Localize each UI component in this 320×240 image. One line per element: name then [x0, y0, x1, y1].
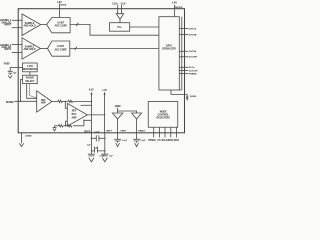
svg-text:10-BIT: 10-BIT	[57, 46, 65, 48]
svg-text:CS: CS	[157, 140, 161, 142]
svg-text:CONTROL: CONTROL	[158, 114, 170, 116]
svg-text:DCO+: DCO+	[189, 67, 196, 69]
svg-text:10-BIT: 10-BIT	[57, 22, 65, 24]
svg-text:0.1µF: 0.1µF	[94, 131, 100, 133]
svg-text:AVDD: AVDD	[60, 3, 66, 6]
svg-text:DRVDD: DRVDD	[175, 7, 183, 9]
svg-text:INPUT: INPUT	[4, 49, 11, 51]
svg-text:SENSE: SENSE	[6, 102, 14, 104]
svg-text:AND HOLD: AND HOLD	[23, 48, 35, 51]
svg-text:0.1µF: 0.1µF	[122, 140, 128, 142]
svg-text:VREF: VREF	[4, 64, 11, 66]
svg-text:OUT1A: OUT1A	[189, 28, 197, 31]
svg-text:0.5V: 0.5V	[89, 89, 94, 91]
svg-text:DATA: DATA	[166, 45, 172, 48]
svg-text:PDWN: PDWN	[148, 140, 155, 142]
svg-text:ADC CORE: ADC CORE	[54, 48, 67, 51]
svg-text:AGND: AGND	[25, 134, 32, 137]
svg-text:VREF: VREF	[120, 131, 126, 133]
svg-text:SDO: SDO	[174, 140, 179, 142]
svg-text:0.1µF: 0.1µF	[99, 155, 105, 157]
svg-text:OUT2A: OUT2A	[189, 50, 197, 53]
svg-text:VREF: VREF	[115, 106, 122, 108]
svg-text:REF: REF	[72, 110, 77, 112]
svg-text:DGND: DGND	[190, 96, 197, 98]
svg-text:INPUT: INPUT	[4, 25, 11, 27]
svg-text:DOUTA−: DOUTA−	[189, 33, 198, 36]
svg-text:SELECT: SELECT	[25, 81, 35, 83]
svg-text:SERIALIZER: SERIALIZER	[162, 48, 176, 51]
svg-text:1.0V: 1.0V	[102, 90, 107, 92]
svg-text:REFERENCE: REFERENCE	[23, 69, 38, 71]
svg-text:CLK+: CLK+	[112, 3, 119, 5]
svg-text:ADC CORE: ADC CORE	[55, 25, 68, 28]
svg-text:REFT: REFT	[106, 131, 112, 133]
svg-text:CLK−: CLK−	[121, 3, 128, 5]
svg-text:AMP: AMP	[71, 117, 77, 120]
svg-text:REGISTERS: REGISTERS	[157, 117, 171, 119]
svg-text:1.8V: 1.8V	[172, 3, 177, 5]
svg-text:RANGE: RANGE	[26, 77, 35, 80]
svg-text:FRAME: FRAME	[189, 72, 197, 75]
svg-text:MODE: MODE	[160, 111, 167, 113]
svg-text:CLKOUT: CLKOUT	[189, 70, 199, 72]
svg-text:DOUTB−: DOUTB−	[189, 57, 199, 59]
svg-text:1.25V: 1.25V	[27, 66, 33, 68]
svg-text:0.1µF: 0.1µF	[140, 140, 146, 142]
svg-text:PLL: PLL	[117, 27, 122, 29]
svg-text:AMP: AMP	[41, 101, 47, 104]
svg-text:RBIAS: RBIAS	[138, 130, 145, 133]
svg-text:BUF: BUF	[72, 114, 77, 116]
svg-text:REFB: REFB	[84, 131, 91, 133]
svg-text:AND HOLD: AND HOLD	[23, 25, 35, 28]
svg-text:SDIO: SDIO	[168, 140, 174, 142]
